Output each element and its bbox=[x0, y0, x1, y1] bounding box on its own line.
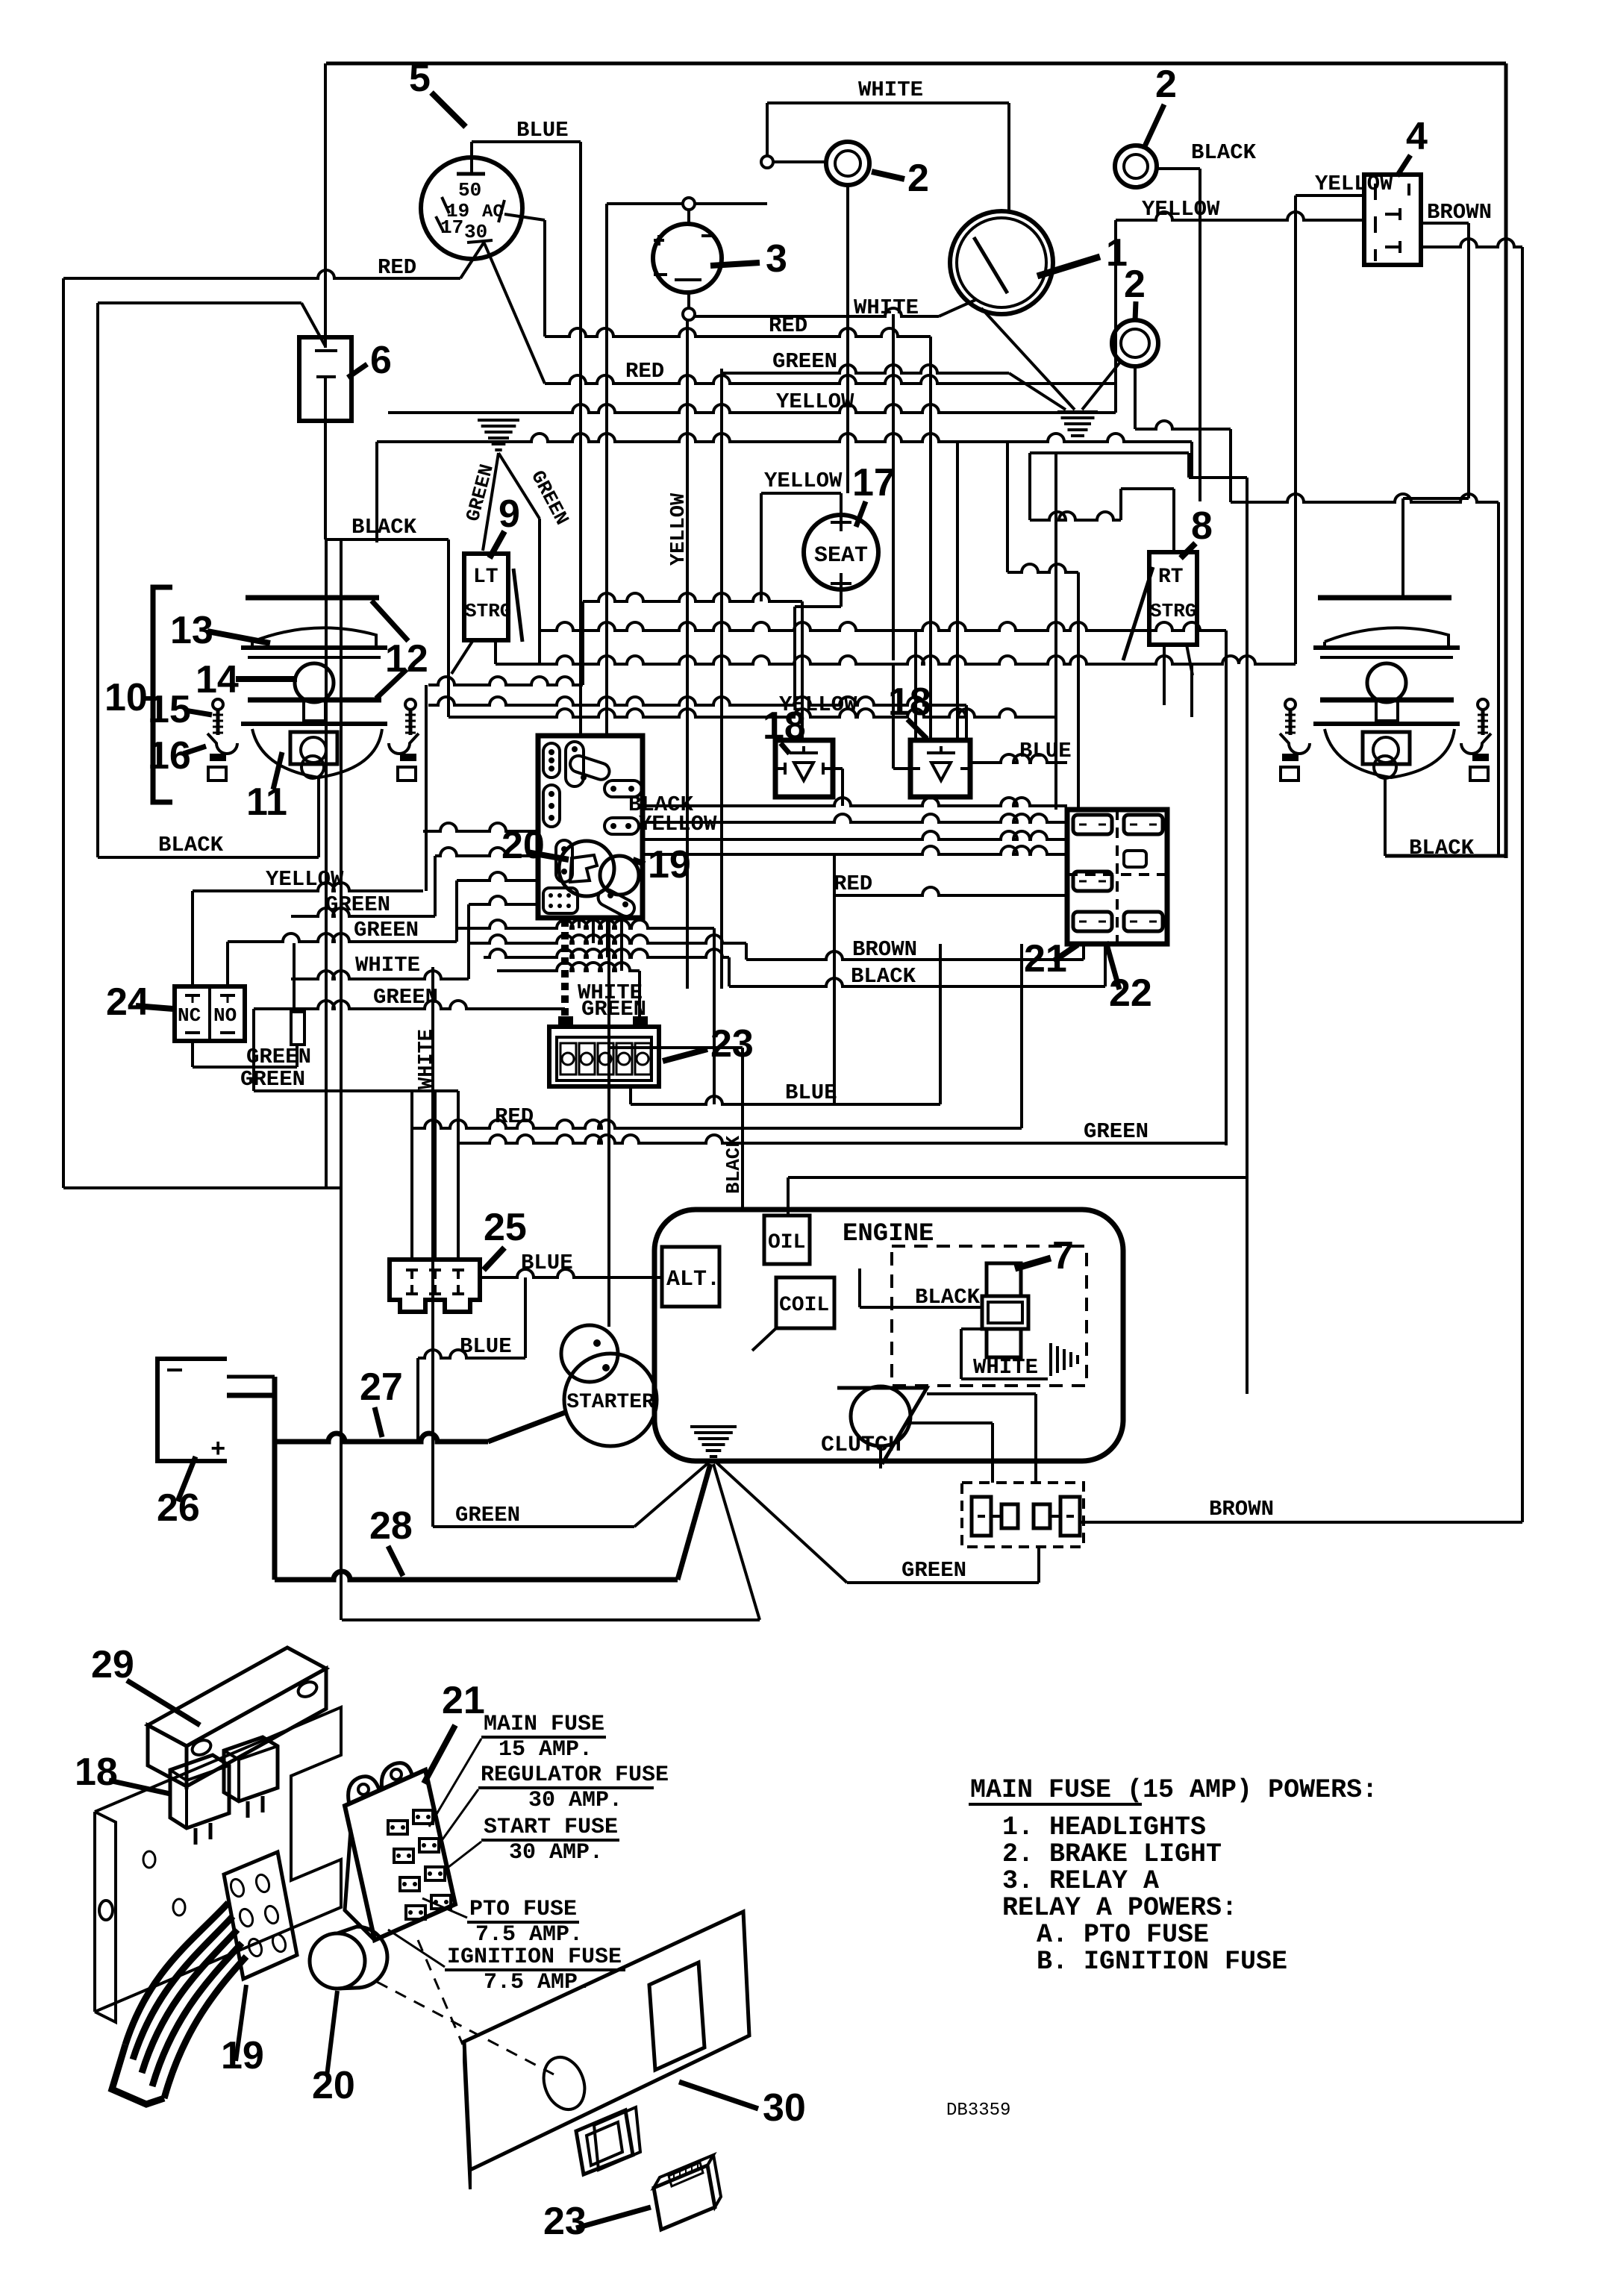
svg-text:RED: RED bbox=[834, 872, 872, 896]
wire staircase rows into block bbox=[423, 823, 538, 831]
bulb 14 bbox=[295, 663, 334, 702]
svg-text:GREEN: GREEN bbox=[1084, 1119, 1149, 1144]
lens 13 bbox=[252, 628, 376, 648]
svg-text:1. HEADLIGHTS: 1. HEADLIGHTS bbox=[1002, 1812, 1206, 1842]
wire: junction above 3 bbox=[683, 198, 695, 210]
wire YELLOW into comp 4 bbox=[1296, 194, 1364, 197]
svg-text:B. IGNITION FUSE: B. IGNITION FUSE bbox=[1037, 1947, 1287, 1977]
hour meter 23 battery bbox=[549, 1027, 659, 1086]
headlight top bar 12 bbox=[246, 595, 379, 601]
circle 3 brake warning bbox=[653, 224, 722, 293]
svg-text:12: 12 bbox=[385, 637, 428, 681]
svg-text:BLUE: BLUE bbox=[785, 1080, 837, 1105]
relay 6 bbox=[299, 337, 351, 421]
ground in engine bbox=[1049, 1343, 1052, 1376]
svg-text:GREEN: GREEN bbox=[354, 918, 419, 942]
dash panel 30 bbox=[464, 1912, 749, 2170]
svg-text:BLUE: BLUE bbox=[1019, 739, 1072, 763]
svg-text:GREEN: GREEN bbox=[373, 985, 438, 1010]
svg-text:YELLOW: YELLOW bbox=[639, 812, 717, 836]
svg-text:5: 5 bbox=[409, 57, 431, 100]
svg-text:MAIN FUSE (15 AMP) POWERS:: MAIN FUSE (15 AMP) POWERS: bbox=[970, 1775, 1378, 1805]
wire WHITE staircase bbox=[291, 971, 469, 979]
wire green diagonals bbox=[483, 453, 499, 551]
wire to OIL bbox=[788, 1176, 1247, 1179]
wires clutch to connector bbox=[927, 1392, 1036, 1395]
svg-text:WHITE: WHITE bbox=[854, 295, 919, 320]
wire 28 thick bbox=[272, 1442, 278, 1580]
wire BLUE from switch 50 bbox=[470, 142, 473, 174]
wire BROWN comp4 right bbox=[1421, 222, 1469, 225]
svg-text:50: 50 bbox=[458, 179, 481, 201]
wire: inner feed to relay 6 bbox=[98, 301, 301, 304]
svg-text:YELLOW: YELLOW bbox=[1142, 197, 1220, 222]
bracket 10 bbox=[153, 587, 172, 802]
svg-text:17: 17 bbox=[852, 461, 896, 504]
svg-text:BLACK: BLACK bbox=[1191, 140, 1257, 165]
svg-text:ENGINE: ENGINE bbox=[843, 1220, 934, 1248]
wire: left lower horizontal bbox=[63, 1186, 341, 1189]
wire GREEN mid bbox=[720, 369, 723, 989]
svg-text:GREEN: GREEN bbox=[901, 1558, 966, 1583]
wires at 24 bbox=[191, 891, 194, 986]
svg-text:GREEN: GREEN bbox=[581, 997, 646, 1022]
fuse block 3d 21 bbox=[345, 1770, 455, 1940]
engine ground cone bbox=[710, 1455, 717, 1458]
wire: RED from switch 30 down-right bbox=[484, 243, 545, 384]
wire: blue trunk vertical bbox=[579, 142, 582, 736]
svg-text:IGNITION FUSE: IGNITION FUSE bbox=[447, 1945, 622, 1970]
svg-text:+: + bbox=[210, 1436, 225, 1465]
svg-text:BLACK: BLACK bbox=[351, 515, 417, 539]
svg-text:30 AMP.: 30 AMP. bbox=[509, 1840, 603, 1865]
svg-text:23: 23 bbox=[543, 2200, 587, 2243]
svg-text:PTO FUSE: PTO FUSE bbox=[469, 1897, 577, 1922]
regulator 25 bbox=[390, 1260, 480, 1312]
ground under gauge 1 bbox=[981, 308, 1075, 410]
wire: right border vertical (black ground run) bbox=[1504, 63, 1508, 858]
wire: AC wire of switch bbox=[504, 214, 545, 220]
reflector bars bbox=[241, 645, 387, 650]
svg-text:STRG: STRG bbox=[1150, 600, 1196, 622]
svg-text:NO: NO bbox=[213, 1004, 237, 1027]
screw 15 left bbox=[213, 699, 223, 710]
svg-text:21: 21 bbox=[442, 1679, 485, 1722]
svg-text:13: 13 bbox=[170, 609, 213, 652]
wire green to engine ground bbox=[634, 1461, 710, 1527]
svg-text:ALT.: ALT. bbox=[666, 1267, 720, 1292]
wire RED to ignition switch bbox=[63, 270, 460, 278]
svg-text:LT: LT bbox=[473, 566, 499, 589]
wire GREEN lower bbox=[254, 1089, 458, 1092]
svg-text:14: 14 bbox=[196, 658, 239, 701]
svg-text:17: 17 bbox=[440, 216, 463, 239]
wire bundle bbox=[125, 1903, 228, 2045]
wire staircase row 918 bbox=[581, 601, 584, 685]
wire from ring 2b bbox=[1134, 366, 1137, 429]
dashed box 7 bbox=[892, 1246, 1087, 1386]
svg-text:28: 28 bbox=[369, 1504, 413, 1548]
svg-text:8: 8 bbox=[1191, 504, 1213, 548]
rocker switch bbox=[576, 2110, 633, 2174]
wire right diagonal from ground bbox=[713, 1464, 760, 1620]
svg-text:YELLOW: YELLOW bbox=[668, 492, 690, 566]
ladder wire from block to battery bbox=[561, 919, 569, 1025]
wire: relay 6 to LT STRG black bbox=[324, 377, 327, 539]
wire bus y945 bbox=[428, 697, 966, 705]
screw right bbox=[405, 699, 416, 710]
dashed connector box bbox=[962, 1483, 1084, 1547]
wire BLUE lower bbox=[418, 1350, 525, 1358]
svg-text:BROWN: BROWN bbox=[1427, 200, 1492, 225]
svg-text:7.5 AMP.: 7.5 AMP. bbox=[475, 1922, 583, 1948]
ignition switch 5 bbox=[421, 157, 522, 259]
svg-text:15 AMP.: 15 AMP. bbox=[499, 1737, 593, 1762]
relay bar 29 bbox=[148, 1648, 326, 1746]
svg-text:NC: NC bbox=[178, 1004, 201, 1027]
stubs relay A bbox=[833, 767, 843, 770]
svg-text:15: 15 bbox=[148, 688, 191, 731]
wires from LT STRG bottom bbox=[451, 640, 473, 674]
wire: left outer vertical bbox=[62, 278, 65, 1188]
svg-text:11: 11 bbox=[246, 781, 287, 824]
svg-text:3: 3 bbox=[766, 237, 787, 281]
svg-text:3. RELAY A: 3. RELAY A bbox=[1002, 1866, 1159, 1896]
connector plugs bbox=[972, 1497, 991, 1536]
brake light ring 2a bbox=[826, 142, 869, 185]
component 7 bbox=[987, 1263, 1021, 1296]
wire GREEN row 3 bbox=[254, 1001, 565, 1009]
svg-text:A. PTO FUSE: A. PTO FUSE bbox=[1037, 1920, 1209, 1950]
svg-text:GREEN: GREEN bbox=[240, 1067, 305, 1092]
wire BLUE row to fuse bbox=[631, 1096, 940, 1104]
svg-text:RED: RED bbox=[378, 255, 416, 280]
COIL box bbox=[776, 1277, 834, 1328]
svg-text:19: 19 bbox=[648, 843, 691, 886]
svg-text:30 AMP.: 30 AMP. bbox=[528, 1788, 622, 1813]
wire headlight box bottom bbox=[98, 856, 319, 859]
svg-text:GREEN: GREEN bbox=[325, 892, 390, 917]
svg-text:BLUE: BLUE bbox=[521, 1251, 573, 1275]
wire bus y961 bbox=[449, 709, 1056, 717]
svg-text:WHITE: WHITE bbox=[355, 953, 420, 977]
svg-text:YELLOW: YELLOW bbox=[266, 867, 344, 892]
starter bbox=[564, 1354, 657, 1446]
wire BLUE regulator to ALT bbox=[480, 1269, 662, 1277]
svg-text:25: 25 bbox=[484, 1206, 527, 1249]
svg-text:30: 30 bbox=[763, 2086, 806, 2130]
svg-text:MAIN FUSE: MAIN FUSE bbox=[484, 1712, 604, 1737]
connector 19 exploded bbox=[224, 1852, 297, 1979]
svg-text:START FUSE: START FUSE bbox=[484, 1815, 618, 1840]
svg-text:RED: RED bbox=[495, 1104, 534, 1129]
wire GREEN row to right bbox=[458, 1135, 1226, 1143]
svg-text:BLACK: BLACK bbox=[1409, 836, 1475, 860]
wire comp4 lower right to far right vertical bbox=[1421, 239, 1522, 247]
svg-text:DB3359: DB3359 bbox=[946, 2101, 1010, 2121]
svg-text:20: 20 bbox=[312, 2064, 355, 2107]
wire 27 thick bbox=[227, 1393, 275, 1398]
svg-text:20: 20 bbox=[501, 824, 545, 867]
wire: top bus (white/main) bbox=[326, 62, 1506, 66]
svg-text:COIL: COIL bbox=[779, 1294, 829, 1317]
svg-text:WHITE: WHITE bbox=[858, 78, 923, 102]
ground cone above LT STRG bbox=[495, 448, 501, 451]
wire bus y845 bbox=[540, 622, 1226, 631]
svg-text:WHITE: WHITE bbox=[973, 1355, 1038, 1380]
svg-text:9: 9 bbox=[499, 492, 520, 536]
gauge 1 ammeter bbox=[950, 211, 1053, 314]
ring 2c headlight ind bbox=[1115, 146, 1157, 187]
wire from seat bottom bbox=[840, 589, 843, 607]
svg-text:RT: RT bbox=[1158, 566, 1184, 589]
svg-text:CLUTCH: CLUTCH bbox=[821, 1433, 901, 1458]
svg-text:7: 7 bbox=[1052, 1234, 1074, 1277]
wire YELLOW 2 into comp 4 bbox=[1116, 212, 1364, 220]
seat switch 17 bbox=[804, 515, 878, 589]
svg-text:RED: RED bbox=[625, 359, 664, 384]
svg-text:2: 2 bbox=[1155, 63, 1177, 106]
wires RT STRG bbox=[1172, 489, 1175, 552]
RT STRG switch 8 bbox=[1149, 552, 1197, 645]
svg-text:18: 18 bbox=[75, 1751, 118, 1794]
svg-text:27: 27 bbox=[360, 1366, 403, 1409]
wire left verticals bbox=[325, 539, 328, 1188]
wire seat yellow bbox=[761, 492, 841, 495]
wire rows right of block bbox=[643, 798, 1067, 806]
wire bus y885 bbox=[494, 642, 497, 664]
svg-text:STARTER: STARTER bbox=[566, 1391, 654, 1414]
svg-text:10: 10 bbox=[104, 676, 148, 719]
svg-text:SEAT: SEAT bbox=[814, 543, 868, 569]
wire BLUE from relay B bbox=[970, 754, 1067, 763]
svg-text:GREEN: GREEN bbox=[772, 349, 837, 374]
spring right bbox=[389, 733, 419, 754]
housing 11 bbox=[241, 722, 387, 726]
svg-text:GREEN: GREEN bbox=[455, 1503, 520, 1527]
wire bus y806 bbox=[583, 593, 802, 601]
connector tabs bbox=[210, 754, 226, 761]
svg-text:REGULATOR FUSE: REGULATOR FUSE bbox=[481, 1762, 669, 1788]
hour meter 23 exploded bbox=[654, 2165, 715, 2230]
svg-text:BLUE: BLUE bbox=[460, 1334, 512, 1359]
oil ring 2b bbox=[1112, 320, 1158, 366]
OIL box bbox=[764, 1216, 810, 1264]
wire from bulb bbox=[317, 778, 320, 857]
svg-text:6: 6 bbox=[370, 339, 392, 382]
svg-text:OIL: OIL bbox=[768, 1231, 805, 1254]
ALT box bbox=[662, 1247, 719, 1307]
svg-text:WHITE: WHITE bbox=[416, 1029, 438, 1089]
wire: junction below 3 bbox=[683, 308, 695, 320]
svg-text:4: 4 bbox=[1406, 115, 1428, 158]
dashed leaders bbox=[377, 1982, 554, 2074]
wire green right from ground bbox=[716, 1463, 847, 1583]
key switch 20 bbox=[310, 1933, 365, 1989]
spring 16 left bbox=[207, 733, 237, 754]
wire bus y553 bbox=[388, 404, 1116, 413]
svg-text:BLUE: BLUE bbox=[516, 118, 569, 143]
svg-text:YELLOW: YELLOW bbox=[776, 390, 854, 414]
svg-text:24: 24 bbox=[106, 980, 149, 1024]
lower bar 12 bbox=[248, 698, 381, 703]
wire WHITE top to gauge bbox=[766, 103, 769, 156]
resistor box bbox=[291, 1012, 304, 1045]
wire BROWN bottom bbox=[1080, 1521, 1522, 1524]
LT STRG switch 9 bbox=[464, 554, 508, 640]
wire YELLOW staircase bbox=[193, 883, 423, 891]
mounting plate bbox=[95, 1707, 341, 2012]
svg-text:BLACK: BLACK bbox=[158, 833, 224, 857]
battery 26 bbox=[157, 1359, 227, 1461]
wire: right headlight ground bottom bbox=[1385, 854, 1506, 858]
svg-text:23: 23 bbox=[710, 1022, 754, 1066]
svg-text:19: 19 bbox=[221, 2034, 264, 2077]
wire GREEN staircase 1 bbox=[291, 908, 435, 916]
svg-text:BROWN: BROWN bbox=[1209, 1497, 1274, 1521]
svg-text:2. BRAKE LIGHT: 2. BRAKE LIGHT bbox=[1002, 1839, 1222, 1869]
svg-text:GREEN: GREEN bbox=[246, 1045, 311, 1069]
svg-text:2: 2 bbox=[907, 157, 929, 200]
rows under block bbox=[457, 920, 714, 928]
wire WHITE from ring 2a down bbox=[846, 185, 849, 493]
svg-text:STRG: STRG bbox=[465, 600, 511, 622]
svg-text:2: 2 bbox=[1124, 263, 1146, 306]
solenoid bbox=[561, 1325, 618, 1382]
wire bus y592 bbox=[377, 434, 1192, 442]
relay boxes 18 bbox=[170, 1755, 229, 1828]
wire RED row mid bbox=[412, 1120, 1022, 1128]
wire GREEN staircase 2 bbox=[228, 933, 457, 942]
wire: left drop from top bus to relay 6 bbox=[324, 63, 327, 348]
svg-text:YELLOW: YELLOW bbox=[1315, 172, 1393, 196]
rocker switch hole bbox=[594, 2107, 640, 2170]
svg-text:RELAY A POWERS:: RELAY A POWERS: bbox=[1002, 1893, 1237, 1923]
svg-text:18: 18 bbox=[888, 681, 931, 724]
svg-text:18: 18 bbox=[763, 704, 806, 748]
component 4 light switch bbox=[1364, 175, 1421, 265]
clutch bbox=[837, 1388, 927, 1464]
wire BLACK from ring 2c bbox=[1157, 167, 1200, 170]
svg-text:YELLOW: YELLOW bbox=[764, 469, 843, 493]
